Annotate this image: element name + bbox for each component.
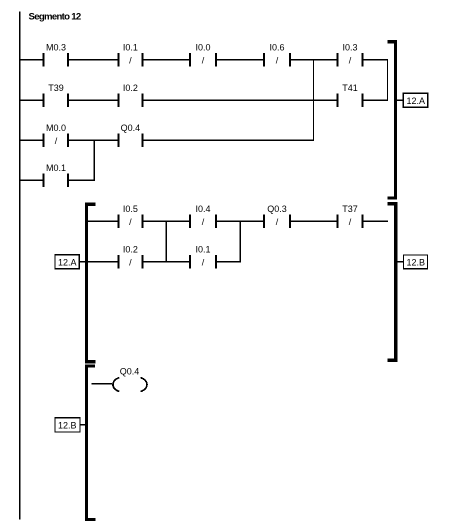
svg-text:M0.1: M0.1 (46, 163, 66, 173)
contact I0.3 (337, 42, 362, 66)
svg-text:M0.3: M0.3 (46, 42, 66, 52)
right connector vertical rung1-rung2 (387, 60, 389, 101)
wire coil line (92, 383, 113, 385)
svg-text:I0.3: I0.3 (342, 42, 357, 52)
svg-text:T41: T41 (342, 83, 358, 93)
contact I0.1 (118, 42, 142, 66)
wire rung2 I0.2 to T41 (143, 99, 338, 101)
contact Q0.4 (118, 123, 142, 147)
contact M0.1 (44, 163, 68, 187)
wire rung2 rail to T39 (19, 99, 44, 101)
contact I0.5 (118, 204, 142, 228)
closing bracket section2 (387, 204, 395, 360)
junction V2 vertical rung3-rung4 (93, 140, 95, 180)
svg-text:12.A: 12.A (58, 258, 77, 268)
wire box 12.B to bracket3 (80, 424, 86, 426)
wire rung1 I0.1 to I0.0 (143, 59, 191, 61)
coil Q0.4 (113, 366, 147, 391)
wire rung1 I0.3 to right connector (363, 59, 389, 61)
contact I0.6 (264, 42, 290, 66)
opening bracket section2 (87, 204, 96, 362)
wire bracket2R to box 12.B (397, 261, 404, 263)
wire box 12.A to bracket2L (79, 261, 85, 263)
svg-text:I0.1: I0.1 (123, 42, 138, 52)
contact I0.0 (190, 42, 216, 66)
contact I0.4 (190, 204, 216, 228)
svg-text:I0.0: I0.0 (195, 42, 210, 52)
contact I0.2 section2 (118, 245, 142, 269)
wire rung3 rail to M0.0 (19, 139, 44, 141)
left power rail (19, 12, 21, 520)
wire row1 bracket to I0.5 (88, 220, 118, 222)
svg-text:I0.6: I0.6 (269, 42, 284, 52)
wire rung1 M0.3 to I0.1 (68, 59, 118, 61)
svg-text:Q0.4: Q0.4 (121, 123, 141, 133)
svg-text:12.A: 12.A (407, 96, 426, 106)
wire row2 bracket to I0.2 (88, 261, 118, 263)
wire rung1 I0.6 to I0.3 (290, 59, 338, 61)
wire rung2 T39 to I0.2 (68, 99, 118, 101)
svg-text:Segmento 12: Segmento 12 (29, 12, 81, 23)
contact M0.3 (44, 42, 68, 66)
wire rung1 rail to M0.3 (19, 59, 44, 61)
svg-text:I0.2: I0.2 (123, 83, 138, 93)
svg-text:T39: T39 (48, 83, 64, 93)
box 12.B right (404, 255, 428, 269)
box 12.B left section3 (55, 418, 80, 432)
wire rung4 rail to M0.1 (19, 179, 44, 181)
svg-text:I0.5: I0.5 (123, 204, 138, 214)
svg-text:I0.2: I0.2 (123, 245, 138, 255)
contact T41 (337, 83, 362, 107)
junction J2 vertical row1-row2 (239, 221, 241, 262)
svg-text:12.B: 12.B (58, 421, 77, 431)
contact I0.2 (118, 83, 142, 107)
wire bracket1 to box 12.A (397, 99, 404, 101)
wire rung4 M0.1 to junction V2 (68, 179, 95, 181)
svg-text:Q0.4: Q0.4 (120, 366, 140, 376)
svg-text:I0.4: I0.4 (195, 204, 210, 214)
contact Q0.3 (264, 204, 290, 228)
wire rung1 I0.0 to I0.6 (216, 59, 264, 61)
svg-text:M0.0: M0.0 (46, 123, 66, 133)
closing bracket section1 (387, 42, 395, 198)
opening bracket section3 (86, 366, 95, 520)
svg-text:12.B: 12.B (407, 258, 426, 268)
junction V1 vertical rung1-rung3 (313, 60, 315, 141)
wire row2 I0.1 to junction J2 (216, 261, 241, 263)
contact T39 (44, 83, 68, 107)
junction J1 vertical row1-row2 (165, 221, 167, 262)
contact M0.0 (44, 123, 68, 147)
box 12.A left section2 (55, 255, 79, 269)
wire row1 T37 dead end (363, 220, 388, 222)
wire rung3 M0.0 to Q0.4 through junction (68, 139, 118, 141)
svg-text:I0.1: I0.1 (195, 245, 210, 255)
wire rung2 T41 to right connector (363, 99, 389, 101)
wire row2 I0.2 to I0.1 (143, 261, 191, 263)
svg-text:T37: T37 (342, 204, 358, 214)
wire rung3 Q0.4 to junction V1 (143, 139, 315, 141)
box 12.A right (403, 93, 427, 107)
contact I0.1 section2 (190, 245, 216, 269)
wire row1 I0.4 to Q0.3 (216, 220, 264, 222)
svg-text:Q0.3: Q0.3 (267, 204, 287, 214)
contact T37 (337, 204, 362, 228)
wire row1 I0.5 to I0.4 (143, 220, 191, 222)
wire row1 Q0.3 to T37 (290, 220, 338, 222)
